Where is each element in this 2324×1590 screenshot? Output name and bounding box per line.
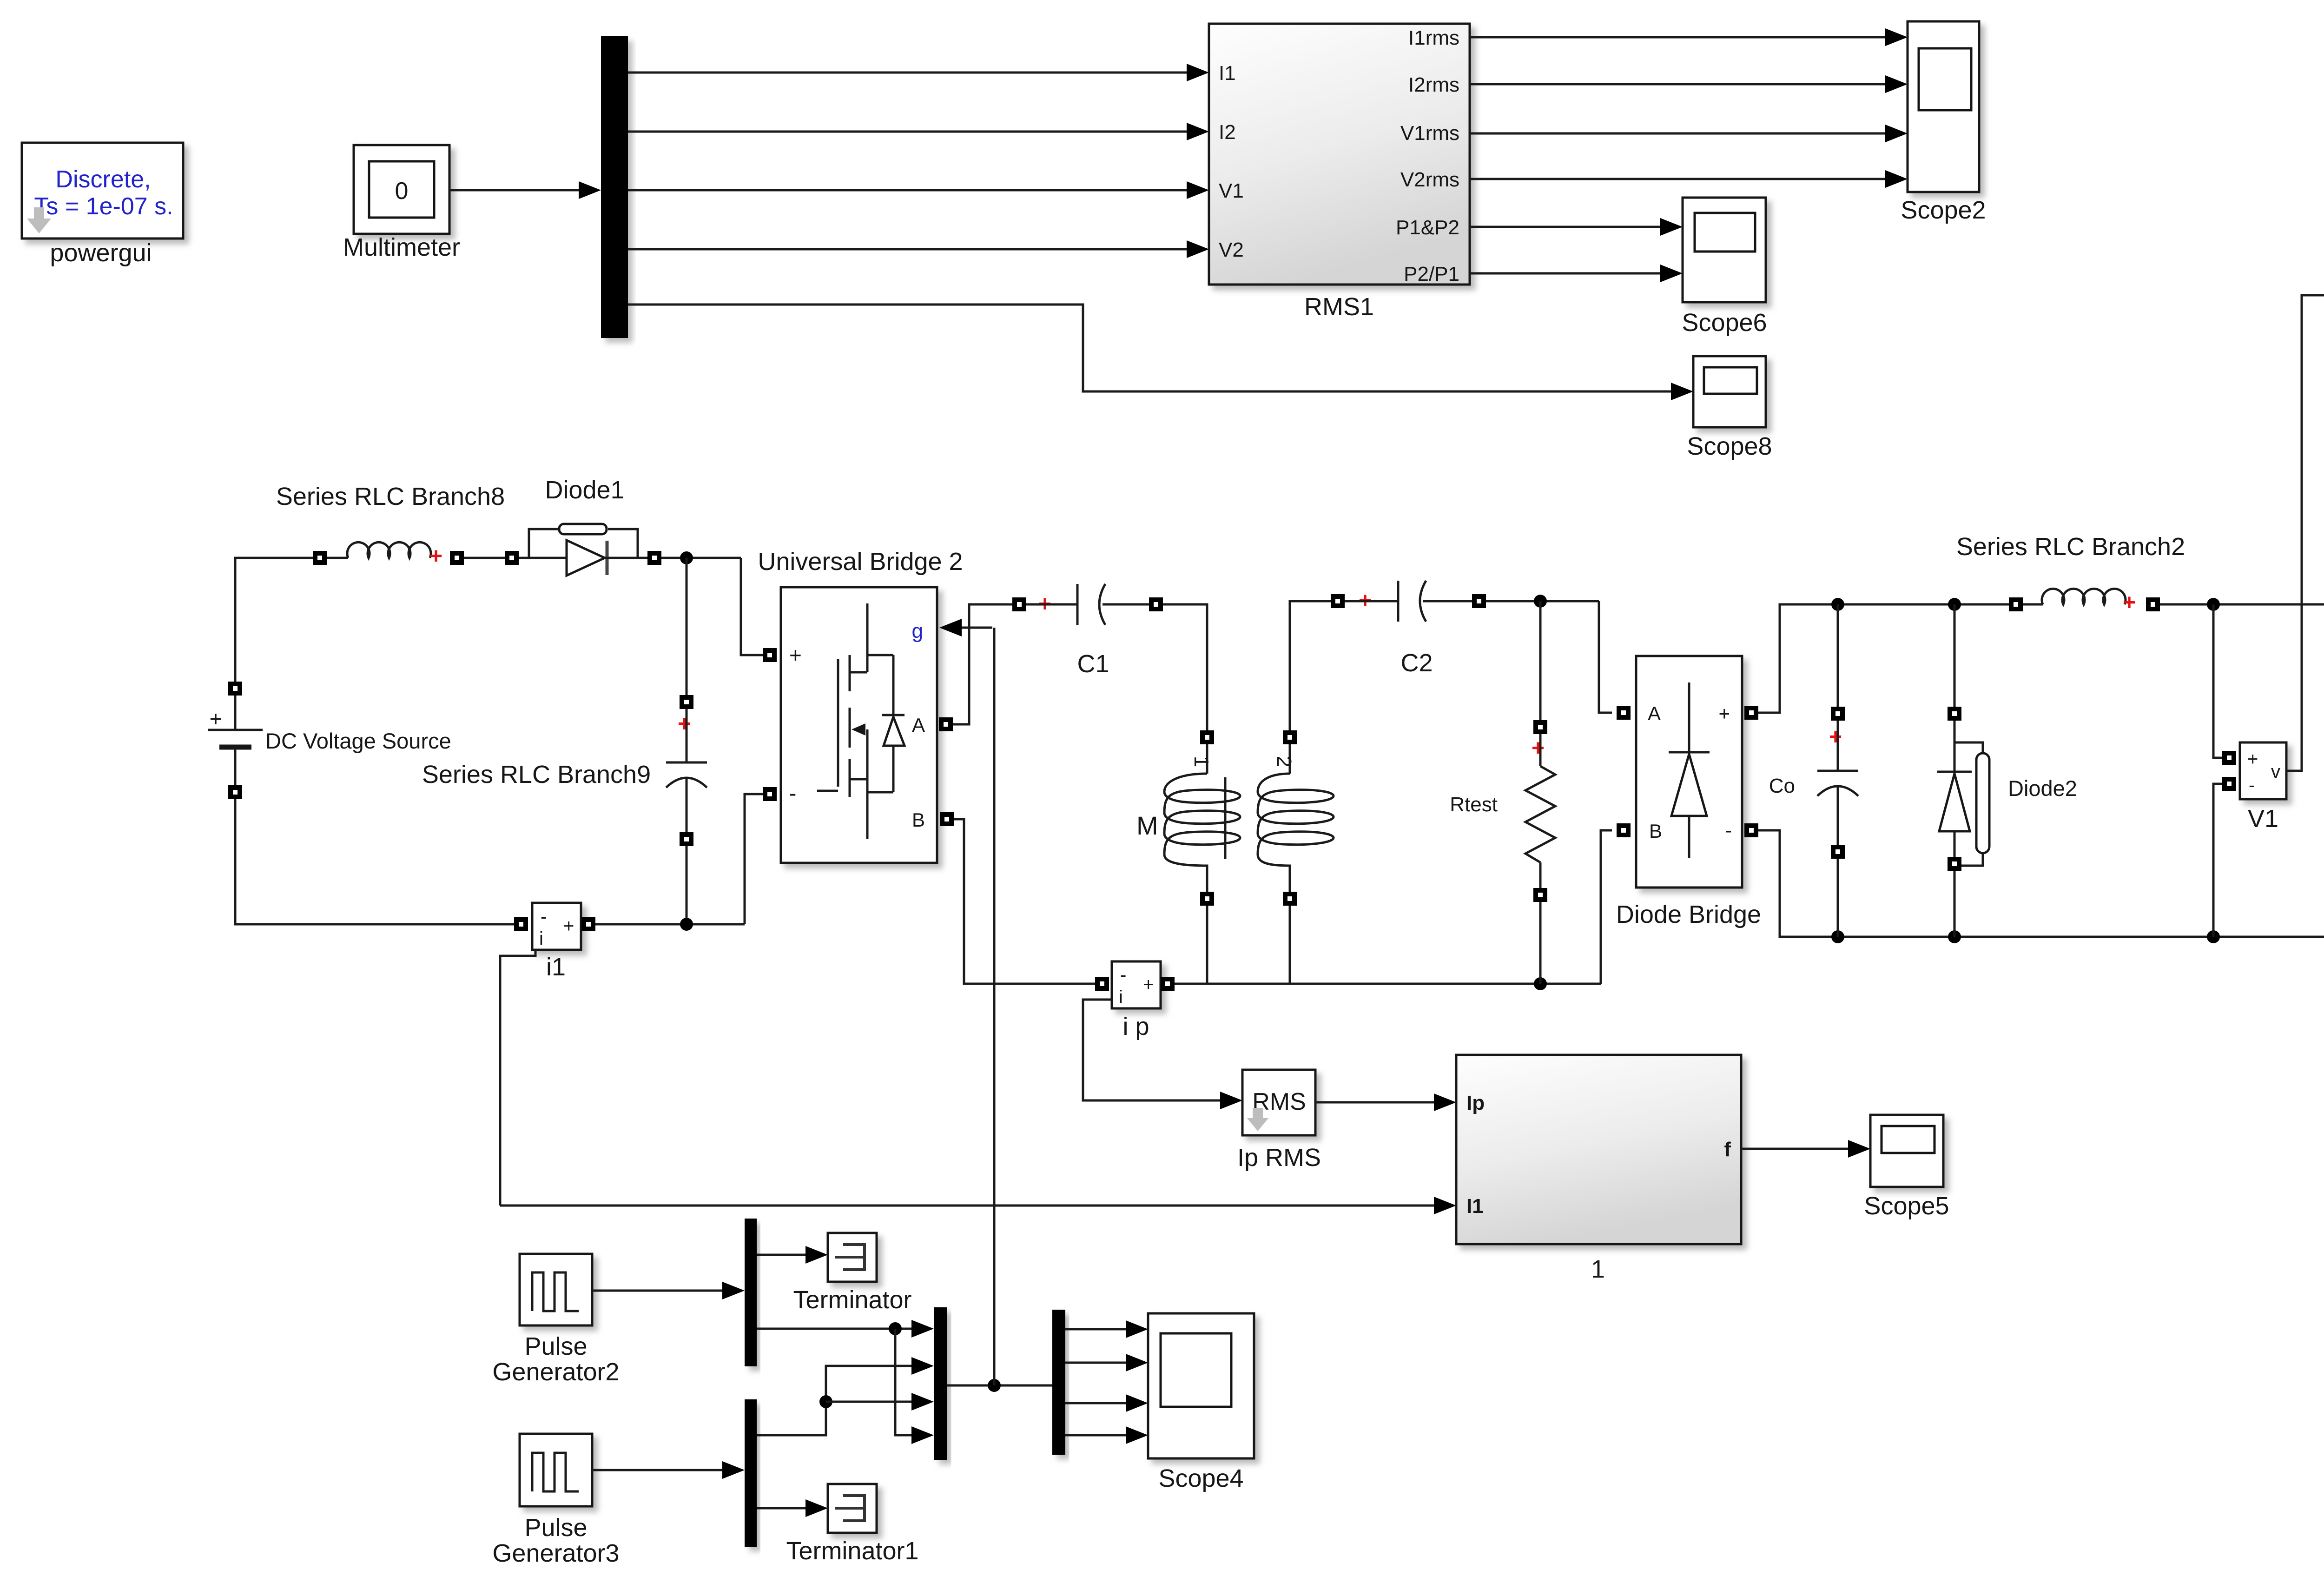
powergui block <box>22 143 183 267</box>
mux Mux <box>934 1307 947 1460</box>
dc source DC Voltage Source <box>208 682 451 799</box>
svg-text:C2: C2 <box>1400 649 1433 677</box>
wire V1rms to Scope2 in3 <box>1470 125 1908 142</box>
subsystem Diode Bridge <box>1616 656 1761 928</box>
svg-text:Ip RMS: Ip RMS <box>1237 1144 1321 1172</box>
svg-text:-: - <box>1725 819 1732 841</box>
wire g input arrow <box>939 619 992 636</box>
wire demux2 out1 to mux in2 and in3 <box>757 1357 934 1435</box>
wire bridge B to ip <box>954 819 1095 984</box>
svg-text:+: + <box>1829 725 1842 749</box>
subsystem Universal Bridge 2 <box>758 548 963 863</box>
capacitor Co <box>1769 604 1858 937</box>
wire winding2 bottom to rail <box>1289 906 1291 984</box>
wire demux2 out2 to Terminator1 <box>757 1499 828 1517</box>
svg-text:Scope2: Scope2 <box>1901 196 1986 224</box>
wire i1 measurement output down <box>500 950 535 1206</box>
wire demux3 out4 to Scope4 <box>1065 1426 1148 1444</box>
wire winding1 bottom to rail <box>1206 906 1208 984</box>
svg-text:Discrete,: Discrete, <box>55 166 151 193</box>
wire f to Scope5 <box>1741 1140 1870 1158</box>
svg-text:+: + <box>678 712 691 736</box>
svg-text:+: + <box>429 544 442 569</box>
current measurement i1 <box>514 903 595 981</box>
svg-text:i1: i1 <box>546 953 566 981</box>
svg-text:Series RLC Branch2: Series RLC Branch2 <box>1956 533 2185 561</box>
svg-text:Co: Co <box>1769 775 1795 797</box>
wire V2rms to Scope2 in4 <box>1470 170 1908 188</box>
svg-text:RMS1: RMS1 <box>1304 293 1374 321</box>
svg-text:Series RLC Branch8: Series RLC Branch8 <box>276 483 505 510</box>
svg-text:Scope5: Scope5 <box>1864 1192 1949 1220</box>
svg-text:Series RLC Branch9: Series RLC Branch9 <box>422 761 651 788</box>
svg-text:M: M <box>1136 811 1158 840</box>
svg-text:I2: I2 <box>1219 121 1236 144</box>
diode Diode1 <box>505 476 661 576</box>
scope Scope6 <box>1682 198 1767 337</box>
svg-text:+: + <box>1718 702 1730 724</box>
svg-text:Rtest: Rtest <box>1450 793 1498 816</box>
svg-text:Universal Bridge 2: Universal Bridge 2 <box>758 548 963 576</box>
wire V1 output to Scope3 in2 <box>2286 286 2324 771</box>
svg-text:Scope4: Scope4 <box>1158 1464 1243 1492</box>
svg-text:f: f <box>1724 1138 1731 1161</box>
voltage measurement V1 <box>2222 742 2286 833</box>
wire C2 to bridge A <box>1486 595 1612 713</box>
svg-text:I1rms: I1rms <box>1408 26 1459 49</box>
svg-text:Terminator: Terminator <box>793 1286 911 1314</box>
scope Scope5 <box>1864 1115 1949 1220</box>
wire PG3 to demux2 <box>592 1461 745 1479</box>
svg-text:+: + <box>1532 736 1545 761</box>
svg-text:Pulse: Pulse <box>524 1514 587 1542</box>
svg-text:DC Voltage Source: DC Voltage Source <box>265 729 451 753</box>
wire Multimeter to demux <box>449 181 601 199</box>
wire P1&P2 to Scope6 in1 <box>1470 218 1683 236</box>
wire branch2 to i so <box>2160 598 2324 611</box>
wire demux out1 to RMS1 I1 <box>628 64 1209 81</box>
wire I1rms to Scope2 in1 <box>1470 28 1908 46</box>
wire bridge - to bottom rail <box>1758 830 2324 943</box>
wire demux1 out2 to mux in1 and in4 <box>757 1320 934 1444</box>
wire top-left rail <box>235 558 313 689</box>
svg-text:Diode1: Diode1 <box>545 476 624 504</box>
svg-text:powergui: powergui <box>50 239 152 267</box>
capacitor C1 <box>1012 584 1163 678</box>
Multimeter block <box>343 145 460 261</box>
demux Demux (5 outputs) <box>601 36 628 338</box>
wire i1 signal to 1 block I1 <box>500 1197 1456 1214</box>
wire I2rms to Scope2 in2 <box>1470 75 1908 93</box>
wire i1 to bridge - <box>595 794 763 931</box>
capacitor Series RLC Branch9 <box>422 558 707 924</box>
svg-text:P2/P1: P2/P1 <box>1404 263 1459 285</box>
wire secondary bottom rail <box>1175 830 1612 990</box>
svg-text:i p: i p <box>1122 1013 1149 1040</box>
diode Diode2 <box>1937 604 2077 937</box>
svg-text:+: + <box>2123 590 2136 615</box>
wire diode1 to bridge + <box>661 551 763 655</box>
svg-text:+: + <box>789 643 802 667</box>
transformer M winding 2 <box>1258 730 1334 906</box>
demux Demux3 <box>1052 1310 1065 1455</box>
svg-text:I1: I1 <box>1466 1195 1484 1218</box>
svg-text:Pulse: Pulse <box>524 1332 587 1360</box>
scope Scope2 <box>1901 21 1986 224</box>
svg-text:-: - <box>541 907 547 927</box>
wire demux out4 to RMS1 V2 <box>628 240 1209 258</box>
svg-text:B: B <box>1649 820 1662 842</box>
svg-text:+: + <box>2247 749 2258 769</box>
svg-text:v: v <box>2271 762 2280 782</box>
svg-text:Multimeter: Multimeter <box>343 233 460 261</box>
svg-text:V1: V1 <box>1219 179 1244 202</box>
wire mux output junction to bridge gate <box>947 628 1052 1392</box>
svg-text:Scope8: Scope8 <box>1687 432 1772 460</box>
svg-text:-: - <box>2249 775 2255 795</box>
svg-text:Diode2: Diode2 <box>2008 776 2077 801</box>
capacitor C2 <box>1331 581 1486 677</box>
terminator Terminator <box>793 1233 911 1314</box>
svg-text:g: g <box>912 620 923 643</box>
wire Ip RMS to 1 block <box>1315 1093 1456 1111</box>
demux Demux1 <box>745 1219 757 1366</box>
terminator Terminator1 <box>786 1484 918 1565</box>
svg-text:Terminator1: Terminator1 <box>786 1537 918 1565</box>
wire demux1 out1 to Terminator <box>757 1246 828 1264</box>
svg-text:+: + <box>563 916 574 936</box>
svg-text:2: 2 <box>1273 756 1295 767</box>
wire demux out5 to Scope8 <box>628 305 1693 400</box>
wire branch8 to Diode1 <box>464 557 505 559</box>
svg-text:+: + <box>1143 974 1154 995</box>
svg-text:V2: V2 <box>1219 238 1244 261</box>
svg-text:i: i <box>1119 987 1123 1007</box>
svg-text:+: + <box>210 707 222 731</box>
inductor Series RLC Branch2 <box>1956 533 2185 615</box>
svg-text:Scope6: Scope6 <box>1682 309 1767 337</box>
pulse generator Pulse Generator3 <box>492 1434 619 1567</box>
wire V1 tap <box>2213 604 2222 758</box>
svg-text:1: 1 <box>1190 756 1213 767</box>
inductor Series RLC Branch8 <box>276 483 505 569</box>
wire dc source bottom to i1 <box>235 799 514 924</box>
wire P2/P1 to Scope6 in2 <box>1470 265 1683 282</box>
demux Demux2 <box>745 1399 757 1547</box>
svg-text:0: 0 <box>395 178 409 205</box>
wire demux3 out3 to Scope4 <box>1065 1394 1148 1412</box>
wire winding2 top to C2 <box>1290 601 1331 730</box>
wire demux out3 to RMS1 V1 <box>628 181 1209 199</box>
wire ip measurement output <box>1083 1000 1242 1109</box>
svg-text:V1rms: V1rms <box>1400 122 1459 145</box>
svg-text:V2rms: V2rms <box>1400 168 1459 191</box>
wire demux3 out2 to Scope4 <box>1065 1354 1148 1371</box>
wire demux3 out1 to Scope4 <box>1065 1320 1148 1338</box>
svg-text:Diode Bridge: Diode Bridge <box>1616 901 1761 928</box>
svg-text:Generator3: Generator3 <box>492 1539 619 1567</box>
pulse generator Pulse Generator2 <box>492 1254 619 1386</box>
svg-text:Generator2: Generator2 <box>492 1358 619 1386</box>
svg-text:B: B <box>912 809 925 831</box>
wire bridge + to top rail <box>1758 598 2009 713</box>
resistor Rtest <box>1450 601 1555 984</box>
svg-text:C1: C1 <box>1077 650 1109 678</box>
scope Scope8 <box>1687 356 1772 460</box>
subsystem RMS1 <box>1209 24 1470 321</box>
transformer M winding 1 <box>1136 730 1240 906</box>
scope Scope4 <box>1148 1313 1254 1492</box>
svg-text:I2rms: I2rms <box>1408 73 1459 96</box>
subsystem 1 <box>1456 1055 1741 1283</box>
rms block Ip RMS <box>1237 1070 1321 1172</box>
svg-text:A: A <box>912 714 925 736</box>
svg-text:V1: V1 <box>2248 805 2278 833</box>
wire C1 to winding 1 <box>1163 604 1207 730</box>
svg-text:1: 1 <box>1591 1255 1605 1283</box>
svg-text:-: - <box>1120 965 1126 985</box>
svg-text:Ts = 1e-07 s.: Ts = 1e-07 s. <box>34 193 173 220</box>
wire PG2 to demux1 <box>592 1282 745 1299</box>
svg-text:Ip: Ip <box>1466 1092 1485 1114</box>
svg-text:i: i <box>539 928 543 949</box>
wire V1 - to bottom rail <box>2213 784 2222 937</box>
wire bridge A to C1 <box>953 604 1012 724</box>
svg-text:P1&P2: P1&P2 <box>1396 216 1459 239</box>
svg-text:I1: I1 <box>1219 62 1236 85</box>
svg-text:-: - <box>789 781 796 805</box>
svg-text:A: A <box>1648 702 1661 724</box>
current measurement ip <box>1095 961 1175 1040</box>
wire demux out2 to RMS1 I2 <box>628 123 1209 140</box>
